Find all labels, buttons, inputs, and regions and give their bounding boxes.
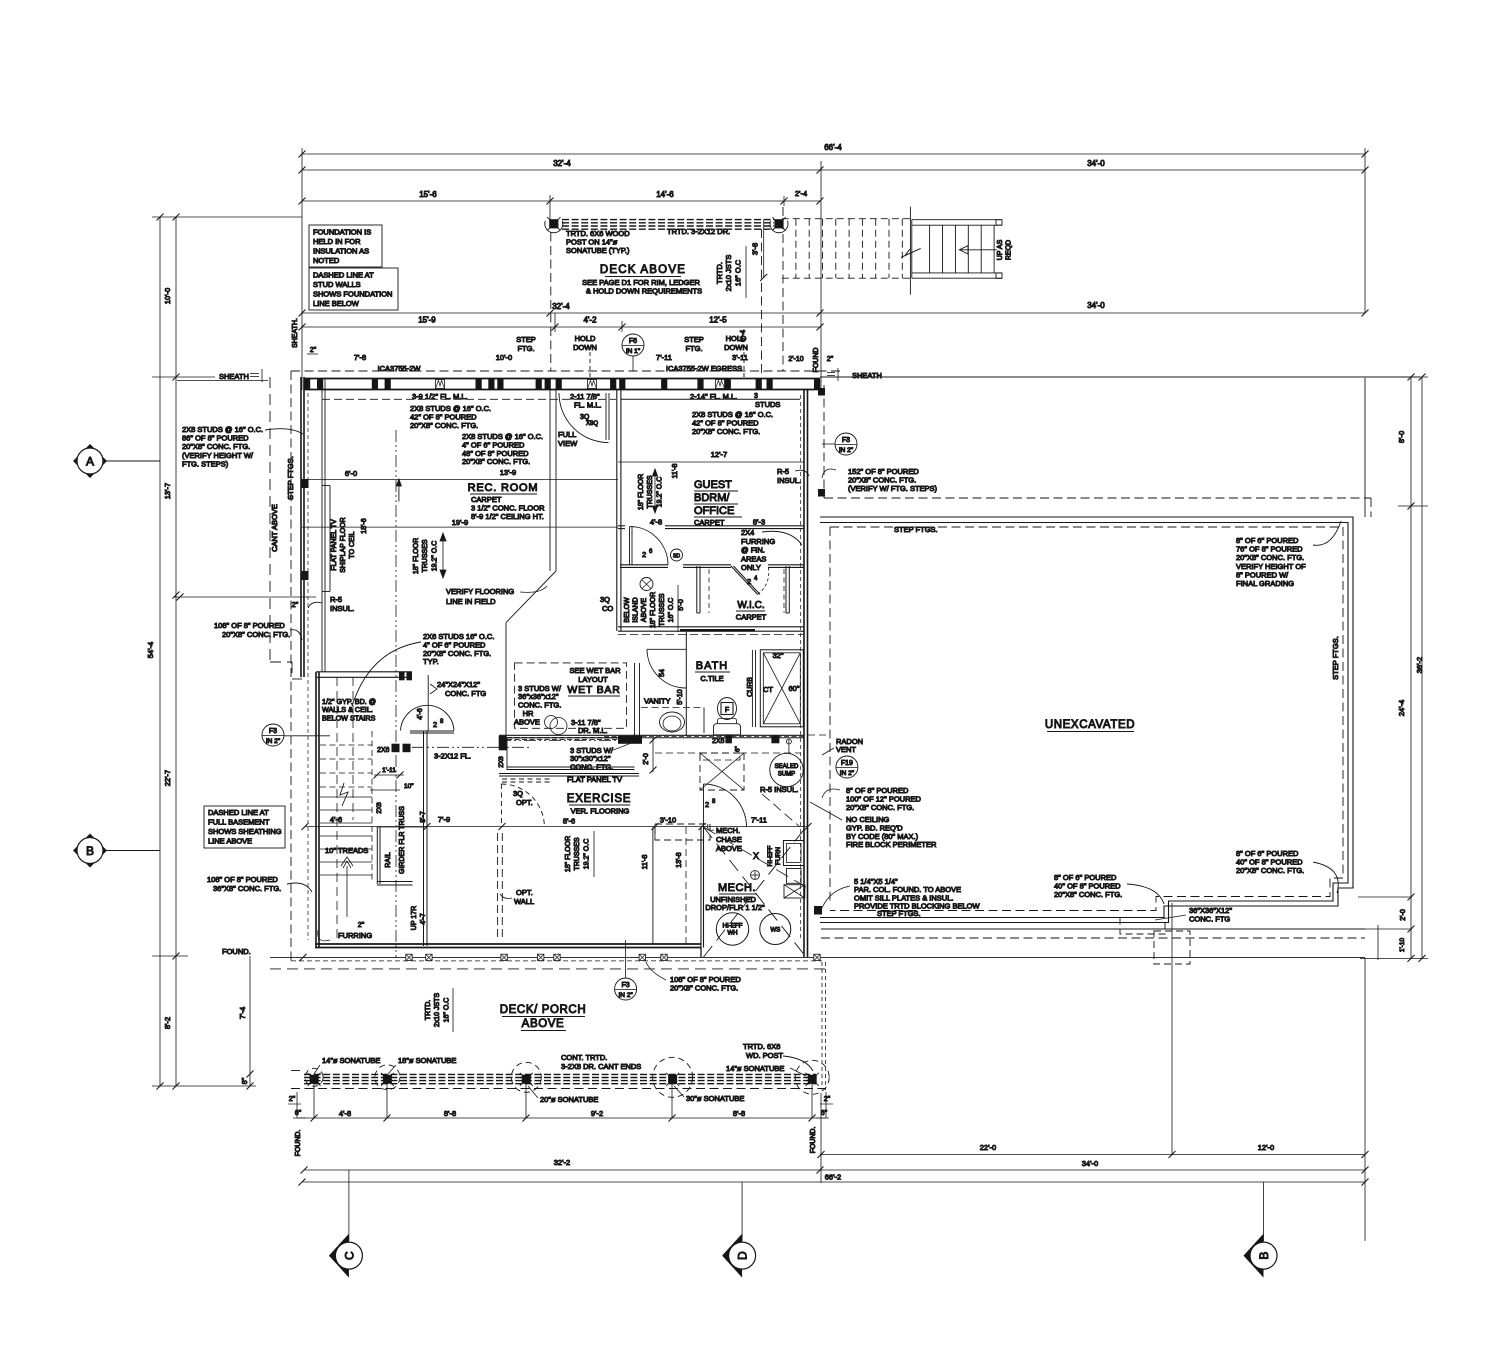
- svg-text:DOWN: DOWN: [573, 343, 597, 352]
- svg-text:W.I.C.: W.I.C.: [737, 600, 764, 611]
- svg-text:FOUND.: FOUND.: [222, 947, 251, 956]
- svg-text:F19: F19: [841, 760, 853, 767]
- svg-text:32": 32": [772, 651, 783, 660]
- svg-text:DECK ABOVE: DECK ABOVE: [600, 264, 686, 276]
- svg-text:SEE WET BAR: SEE WET BAR: [569, 666, 621, 675]
- svg-text:2: 2: [747, 577, 751, 586]
- svg-text:SHIPLAP FLOOR: SHIPLAP FLOOR: [340, 517, 347, 573]
- svg-text:8'-6: 8'-6: [563, 817, 575, 826]
- svg-text:GUEST: GUEST: [694, 479, 732, 491]
- svg-text:STEP FTGS.: STEP FTGS.: [286, 456, 295, 500]
- svg-text:CO: CO: [602, 604, 613, 613]
- svg-text:10'-0: 10'-0: [496, 353, 512, 362]
- svg-text:7'-9: 7'-9: [438, 815, 450, 824]
- svg-text:16" O.C: 16" O.C: [668, 598, 675, 623]
- svg-text:13'-8: 13'-8: [676, 852, 683, 867]
- svg-text:18'-6: 18'-6: [361, 518, 368, 533]
- svg-text:8": 8": [242, 1077, 249, 1084]
- svg-text:CARPET: CARPET: [694, 518, 725, 527]
- svg-text:CONC. FTG: CONC. FTG: [1189, 915, 1230, 924]
- svg-text:HOLD: HOLD: [575, 334, 596, 343]
- svg-text:2": 2": [292, 602, 299, 609]
- svg-text:IN 2": IN 2": [839, 447, 854, 454]
- svg-text:B: B: [86, 844, 94, 858]
- svg-text:20"X8" CONC. FTG.: 20"X8" CONC. FTG.: [692, 427, 760, 436]
- svg-text:TRUSSES: TRUSSES: [422, 539, 429, 572]
- svg-text:20"X8" CONC. FTG.: 20"X8" CONC. FTG.: [462, 457, 530, 466]
- svg-text:18"ø SONATUBE: 18"ø SONATUBE: [398, 1056, 456, 1065]
- svg-text:SD: SD: [673, 554, 680, 560]
- svg-text:ABOVE: ABOVE: [716, 844, 742, 853]
- svg-text:TRUSSES: TRUSSES: [574, 837, 581, 870]
- svg-text:GIRDER FLR TRUSS: GIRDER FLR TRUSS: [399, 806, 406, 874]
- svg-text:36'-2: 36'-2: [1415, 657, 1424, 673]
- svg-text:F3: F3: [842, 437, 850, 444]
- svg-text:MECH.: MECH.: [718, 882, 756, 894]
- svg-text:3Q: 3Q: [600, 595, 610, 604]
- svg-text:OFFICE: OFFICE: [694, 505, 734, 517]
- svg-text:11'-8: 11'-8: [672, 463, 679, 478]
- svg-text:STUDS: STUDS: [755, 400, 780, 409]
- svg-text:BDRM/: BDRM/: [694, 492, 730, 504]
- svg-text:D: D: [736, 1251, 750, 1260]
- svg-text:IN 1": IN 1": [626, 348, 641, 355]
- svg-text:2'-0: 2'-0: [1400, 909, 1407, 921]
- svg-text:INSULATION AS: INSULATION AS: [313, 247, 369, 256]
- svg-text:7'-8: 7'-8: [354, 353, 366, 362]
- svg-text:8'-0: 8'-0: [1397, 431, 1406, 443]
- svg-text:OPT.: OPT.: [516, 888, 533, 897]
- svg-text:18" FLOOR: 18" FLOOR: [565, 836, 572, 872]
- svg-text:20"ø SONATUBE: 20"ø SONATUBE: [540, 1095, 598, 1104]
- svg-text:32'-4: 32'-4: [552, 302, 570, 311]
- svg-text:7'-11: 7'-11: [751, 816, 767, 825]
- svg-text:2: 2: [705, 800, 709, 809]
- svg-text:66'-2: 66'-2: [825, 1173, 841, 1182]
- svg-text:DASHED LINE AT: DASHED LINE AT: [313, 271, 374, 280]
- svg-text:R-5 INSUL.: R-5 INSUL.: [760, 785, 798, 794]
- svg-text:6": 6": [821, 1110, 828, 1117]
- svg-text:13'-7: 13'-7: [163, 483, 172, 499]
- svg-text:4'-8: 4'-8: [339, 1109, 351, 1118]
- svg-text:FLAT PANEL TV: FLAT PANEL TV: [567, 775, 622, 784]
- svg-text:SHOWS SHEATHING: SHOWS SHEATHING: [208, 827, 282, 836]
- svg-text:15'-9: 15'-9: [418, 316, 436, 325]
- svg-text:TRUSSES: TRUSSES: [659, 593, 666, 626]
- svg-text:108" OF 8" POURED: 108" OF 8" POURED: [214, 621, 285, 630]
- svg-text:54'-4: 54'-4: [146, 642, 155, 658]
- svg-text:6'-0: 6'-0: [345, 469, 357, 478]
- svg-text:TO CEIL: TO CEIL: [349, 531, 356, 558]
- svg-text:54: 54: [659, 669, 666, 677]
- svg-text:SHEATH: SHEATH: [852, 371, 882, 380]
- svg-text:FULL BASEMENT: FULL BASEMENT: [208, 818, 270, 827]
- svg-text:FTG.: FTG.: [517, 344, 534, 353]
- svg-text:2-14" FL. M.L.: 2-14" FL. M.L.: [690, 392, 737, 401]
- svg-text:4'-8: 4'-8: [650, 518, 662, 527]
- svg-text:LAYOUT: LAYOUT: [578, 675, 608, 684]
- svg-text:IN 2": IN 2": [266, 738, 281, 745]
- svg-text:20"X8" CONC. FTG.: 20"X8" CONC. FTG.: [670, 984, 738, 993]
- svg-text:ABOVE: ABOVE: [514, 718, 540, 727]
- svg-text:ABOVE: ABOVE: [641, 598, 648, 622]
- svg-text:& HOLD DOWN REQUIREMENTS: & HOLD DOWN REQUIREMENTS: [586, 287, 702, 296]
- svg-text:STEP FTGS.: STEP FTGS.: [877, 909, 921, 918]
- svg-text:UP 17R: UP 17R: [411, 906, 418, 930]
- svg-text:2: 2: [642, 550, 646, 559]
- svg-text:12'-7: 12'-7: [711, 450, 727, 459]
- svg-text:2": 2": [310, 347, 317, 354]
- svg-text:FINAL GRADING: FINAL GRADING: [1236, 579, 1294, 588]
- svg-text:VENT: VENT: [836, 745, 856, 754]
- svg-text:ISLAND: ISLAND: [633, 597, 640, 622]
- svg-text:8'-8: 8'-8: [444, 1109, 456, 1118]
- svg-text:SHEATH: SHEATH: [219, 372, 249, 381]
- svg-text:3-2X12 FL.: 3-2X12 FL.: [434, 752, 471, 761]
- svg-text:12'-5: 12'-5: [709, 316, 727, 325]
- svg-text:20"X8" CONC. FTG.: 20"X8" CONC. FTG.: [846, 803, 914, 812]
- svg-text:DR. M.L.: DR. M.L.: [578, 726, 608, 735]
- svg-text:SONATUBE (TYP.): SONATUBE (TYP.): [566, 246, 630, 255]
- svg-text:R-5: R-5: [330, 595, 342, 604]
- svg-text:108" OF 8" POURED: 108" OF 8" POURED: [207, 875, 278, 884]
- svg-text:SEALED: SEALED: [775, 764, 799, 770]
- svg-text:DASHED LINE AT: DASHED LINE AT: [208, 808, 269, 817]
- svg-text:6": 6": [735, 745, 742, 752]
- svg-text:WS: WS: [770, 927, 780, 934]
- svg-text:UP AS: UP AS: [997, 239, 1004, 260]
- svg-text:BATH: BATH: [696, 660, 729, 672]
- svg-text:ICA3755-2W EGRESS: ICA3755-2W EGRESS: [666, 364, 742, 373]
- svg-text:TRTD.: TRTD.: [715, 262, 724, 284]
- svg-text:7'-11: 7'-11: [656, 353, 672, 362]
- svg-text:12'-0: 12'-0: [1258, 1143, 1274, 1152]
- svg-text:FOUND.: FOUND.: [295, 1130, 302, 1157]
- svg-text:STEP: STEP: [684, 335, 704, 344]
- svg-text:34'-0: 34'-0: [1082, 1159, 1098, 1168]
- svg-text:20"X8" CONC. FTG.: 20"X8" CONC. FTG.: [222, 630, 290, 639]
- svg-text:16" O.C: 16" O.C: [444, 998, 451, 1023]
- svg-text:8'-8: 8'-8: [733, 1109, 745, 1118]
- svg-text:3Q: 3Q: [513, 789, 523, 798]
- svg-text:TRTD. 3-2X12 DR.: TRTD. 3-2X12 DR.: [667, 227, 730, 236]
- svg-text:IN 2": IN 2": [618, 992, 633, 999]
- svg-text:HI-EFF: HI-EFF: [767, 846, 774, 867]
- svg-text:DOWN: DOWN: [724, 343, 748, 352]
- svg-text:EXERCISE: EXERCISE: [567, 793, 632, 805]
- svg-text:2X6: 2X6: [377, 747, 390, 754]
- svg-text:SHEATH.: SHEATH.: [292, 318, 299, 348]
- svg-text:FTG.: FTG.: [685, 344, 702, 353]
- svg-text:5'-0: 5'-0: [678, 599, 685, 611]
- svg-text:DROP/FLR 1 1/2": DROP/FLR 1 1/2": [705, 903, 765, 912]
- svg-text:MECH.: MECH.: [716, 826, 740, 835]
- svg-text:TRTD.: TRTD.: [425, 1000, 432, 1021]
- svg-text:19.2" O.C: 19.2" O.C: [432, 541, 439, 572]
- svg-text:20"X8" CONC. FTG.: 20"X8" CONC. FTG.: [1236, 553, 1304, 562]
- svg-text:FOUNDATION IS: FOUNDATION IS: [313, 228, 371, 237]
- svg-text:4'-6: 4'-6: [330, 815, 342, 824]
- svg-text:10": 10": [404, 783, 414, 790]
- svg-text:VERIFY FLOORING: VERIFY FLOORING: [446, 587, 514, 596]
- svg-text:STUD WALLS: STUD WALLS: [313, 280, 361, 289]
- svg-text:18" FLOOR: 18" FLOOR: [413, 538, 420, 574]
- svg-text:TRUSSES: TRUSSES: [647, 475, 654, 508]
- svg-text:66'-4: 66'-4: [824, 143, 842, 152]
- svg-text:BELOW STAIRS: BELOW STAIRS: [322, 713, 376, 722]
- svg-text:15'-6: 15'-6: [419, 190, 437, 199]
- svg-text:@ FIN.: @ FIN.: [741, 546, 765, 555]
- svg-text:14'-6: 14'-6: [656, 190, 674, 199]
- svg-text:4'-2: 4'-2: [583, 316, 597, 325]
- svg-text:2": 2": [827, 356, 834, 363]
- svg-text:IN 2": IN 2": [840, 770, 855, 777]
- svg-text:F3: F3: [269, 728, 277, 735]
- svg-text:30"ø SONATUBE: 30"ø SONATUBE: [686, 1094, 744, 1103]
- svg-text:ABOVE: ABOVE: [522, 1018, 565, 1030]
- svg-text:NOTED: NOTED: [313, 256, 340, 265]
- svg-text:2": 2": [824, 1096, 831, 1103]
- svg-text:TRTD. 6X6: TRTD. 6X6: [743, 1042, 780, 1051]
- svg-text:X: X: [753, 851, 759, 861]
- svg-text:WH: WH: [727, 930, 737, 937]
- svg-text:6": 6": [295, 1110, 302, 1117]
- svg-text:HOLD: HOLD: [726, 334, 747, 343]
- svg-text:32'-2: 32'-2: [554, 1158, 570, 1167]
- svg-text:STEP FTGS.: STEP FTGS.: [894, 525, 938, 534]
- svg-text:9'-2: 9'-2: [591, 1109, 603, 1118]
- svg-text:X8Q: X8Q: [586, 421, 598, 427]
- svg-text:FULL: FULL: [558, 430, 576, 439]
- svg-text:WET BAR: WET BAR: [567, 684, 620, 696]
- svg-text:VANITY: VANITY: [644, 697, 671, 706]
- svg-text:20"X8" CONC. FTG.: 20"X8" CONC. FTG.: [1054, 890, 1122, 899]
- svg-text:CONC. FTG.: CONC. FTG.: [570, 762, 613, 771]
- svg-text:4'-6: 4'-6: [417, 708, 424, 720]
- svg-text:24"X24"X12": 24"X24"X12": [437, 680, 480, 689]
- svg-text:FTG. STEPS): FTG. STEPS): [182, 459, 229, 468]
- svg-text:60": 60": [788, 684, 799, 693]
- svg-text:3'-11: 3'-11: [732, 353, 748, 362]
- svg-text:19.2" O.C: 19.2" O.C: [584, 839, 591, 870]
- svg-text:VIEW: VIEW: [558, 439, 578, 448]
- svg-text:ONLY: ONLY: [741, 563, 761, 572]
- svg-text:3'-8: 3'-8: [751, 243, 760, 255]
- svg-text:2X6: 2X6: [498, 756, 505, 768]
- svg-text:FLAT PANEL TV: FLAT PANEL TV: [331, 519, 338, 571]
- svg-text:13'-9: 13'-9: [500, 468, 516, 477]
- svg-text:2": 2": [358, 922, 365, 929]
- svg-text:SHOWS FOUNDATION: SHOWS FOUNDATION: [313, 290, 392, 299]
- svg-text:OPT.: OPT.: [516, 798, 533, 807]
- svg-text:5'-10: 5'-10: [677, 689, 684, 704]
- svg-text:WD. POST: WD. POST: [746, 1051, 784, 1060]
- svg-text:FURRING: FURRING: [338, 931, 372, 940]
- svg-text:FOUND: FOUND: [813, 348, 820, 373]
- svg-text:36"X8" CONC. FTG.: 36"X8" CONC. FTG.: [213, 884, 281, 893]
- svg-text:1'-11: 1'-11: [382, 767, 396, 774]
- svg-text:CURB: CURB: [747, 677, 754, 697]
- svg-text:2x10 JSTS: 2x10 JSTS: [724, 255, 733, 292]
- svg-text:REC. ROOM: REC. ROOM: [468, 482, 539, 494]
- svg-text:R-5: R-5: [777, 467, 789, 476]
- svg-text:SUMP: SUMP: [778, 772, 795, 778]
- svg-text:2'-0: 2'-0: [643, 753, 650, 765]
- svg-text:18" FLOOR: 18" FLOOR: [650, 592, 657, 628]
- svg-text:CARPET: CARPET: [736, 613, 767, 622]
- svg-text:22'-7: 22'-7: [163, 770, 172, 786]
- svg-text:STEP FTGS.: STEP FTGS.: [1331, 636, 1340, 680]
- svg-text:INSUL.: INSUL.: [330, 604, 354, 613]
- svg-text:C.TILE: C.TILE: [700, 674, 723, 683]
- svg-text:2X6: 2X6: [376, 802, 383, 814]
- svg-text:14"ø SONATUBE: 14"ø SONATUBE: [726, 1064, 784, 1073]
- svg-text:2X4: 2X4: [741, 528, 754, 537]
- svg-text:CONC. FTG: CONC. FTG: [445, 689, 486, 698]
- svg-text:FL. M.L.: FL. M.L.: [574, 401, 602, 410]
- svg-text:2'-10: 2'-10: [788, 356, 803, 363]
- svg-text:VER. FLOORING: VER. FLOORING: [571, 807, 630, 816]
- svg-text:2X6: 2X6: [712, 738, 725, 745]
- svg-text:8'-7: 8'-7: [420, 811, 427, 823]
- svg-text:F6: F6: [629, 338, 637, 345]
- svg-text:22'-0: 22'-0: [980, 1143, 996, 1152]
- svg-text:3-2X8 DR. CANT ENDS: 3-2X8 DR. CANT ENDS: [561, 1062, 641, 1071]
- svg-text:3-9 1/2" FL. M.L.: 3-9 1/2" FL. M.L.: [412, 392, 468, 401]
- svg-text:A: A: [86, 455, 94, 469]
- svg-text:34'-0: 34'-0: [1087, 159, 1105, 168]
- svg-text:TYP.: TYP.: [423, 657, 439, 666]
- svg-text:CONT. TRTD.: CONT. TRTD.: [561, 1053, 607, 1062]
- svg-text:34'-0: 34'-0: [1087, 301, 1105, 310]
- svg-text:2'-4: 2'-4: [795, 189, 807, 198]
- svg-text:CHASE: CHASE: [716, 835, 742, 844]
- svg-text:B: B: [1257, 1252, 1271, 1260]
- svg-text:8'-9 1/2" CEILING HT.: 8'-9 1/2" CEILING HT.: [471, 512, 544, 521]
- svg-text:20"X8" CONC. FTG.: 20"X8" CONC. FTG.: [410, 421, 478, 430]
- svg-text:FIRE BLOCK PERIMETER: FIRE BLOCK PERIMETER: [846, 840, 937, 849]
- svg-text:3'-10: 3'-10: [660, 816, 676, 825]
- svg-text:10" TREADS: 10" TREADS: [325, 846, 368, 855]
- svg-text:FOUND.: FOUND.: [810, 1127, 817, 1154]
- svg-text:RAIL: RAIL: [385, 852, 392, 868]
- svg-text:14"ø SONATUBE: 14"ø SONATUBE: [322, 1056, 380, 1065]
- svg-text:19.2" O.C: 19.2" O.C: [657, 477, 664, 508]
- svg-text:REQD: REQD: [1006, 240, 1013, 260]
- svg-text:INSUL.: INSUL.: [777, 476, 801, 485]
- svg-text:20"X8" CONC. FTG.: 20"X8" CONC. FTG.: [1236, 866, 1304, 875]
- svg-text:24'-4: 24'-4: [1397, 700, 1406, 716]
- svg-text:DECK/ PORCH: DECK/ PORCH: [500, 1004, 586, 1016]
- svg-text:F: F: [725, 707, 729, 714]
- svg-text:HI-EFF: HI-EFF: [723, 923, 743, 930]
- svg-text:CT: CT: [763, 685, 773, 694]
- svg-text:LINE IN FIELD: LINE IN FIELD: [446, 597, 496, 606]
- svg-text:UNEXCAVATED: UNEXCAVATED: [1045, 719, 1135, 731]
- svg-text:ICA3755-2W: ICA3755-2W: [378, 364, 422, 373]
- svg-text:2": 2": [289, 1096, 296, 1103]
- svg-text:7'-4: 7'-4: [238, 1007, 247, 1019]
- svg-text:LINE ABOVE: LINE ABOVE: [208, 837, 252, 846]
- svg-text:WALL: WALL: [514, 897, 534, 906]
- svg-text:BELOW: BELOW: [624, 597, 631, 623]
- svg-text:3Q: 3Q: [580, 414, 590, 421]
- svg-text:C: C: [342, 1251, 356, 1260]
- svg-text:(VERIFY W/ FTG. STEPS): (VERIFY W/ FTG. STEPS): [848, 484, 938, 493]
- svg-text:2x10 JSTS: 2x10 JSTS: [434, 993, 441, 1028]
- svg-text:FURRING: FURRING: [741, 537, 775, 546]
- svg-text:LINE BELOW: LINE BELOW: [313, 299, 360, 308]
- svg-text:11'-8: 11'-8: [642, 854, 649, 869]
- svg-text:10'-0: 10'-0: [163, 288, 172, 304]
- svg-text:F3: F3: [622, 982, 630, 989]
- svg-text:8'-2: 8'-2: [163, 1017, 172, 1029]
- svg-text:18" FLOOR: 18" FLOOR: [638, 474, 645, 510]
- svg-text:AREAS: AREAS: [741, 554, 766, 563]
- svg-text:8'-3: 8'-3: [753, 518, 765, 527]
- svg-text:3: 3: [754, 393, 758, 400]
- svg-text:19'-9: 19'-9: [452, 518, 468, 527]
- svg-text:CANT ABOVE: CANT ABOVE: [270, 504, 279, 552]
- svg-text:1'-10: 1'-10: [1399, 937, 1406, 952]
- svg-text:2: 2: [433, 720, 437, 729]
- svg-text:4'-7: 4'-7: [420, 913, 427, 925]
- svg-text:HELD IN FOR: HELD IN FOR: [313, 237, 361, 246]
- svg-text:16" O.C: 16" O.C: [734, 259, 743, 286]
- svg-text:32'-4: 32'-4: [553, 159, 571, 168]
- svg-text:STEP: STEP: [516, 335, 536, 344]
- svg-text:FURN: FURN: [775, 847, 782, 865]
